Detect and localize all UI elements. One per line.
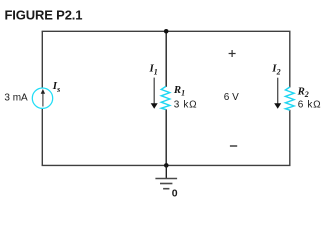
ground symbol bar 2 xyxy=(160,183,172,185)
current source Is (circle) xyxy=(32,88,52,108)
svg-text:0: 0 xyxy=(172,187,178,199)
svg-text:I2: I2 xyxy=(271,62,280,76)
svg-text:6 kΩ: 6 kΩ xyxy=(298,100,321,111)
resistor R1 (cyan zigzag) xyxy=(161,86,170,109)
ground stub wire xyxy=(165,165,167,178)
junction node dot (top, middle branch) xyxy=(164,29,169,34)
junction node dot (bottom, ground node) xyxy=(164,163,169,168)
svg-text:R2: R2 xyxy=(297,85,309,99)
svg-text:3 mA: 3 mA xyxy=(4,93,28,104)
wire middle upper (top node to R1) xyxy=(165,31,167,87)
ground symbol bar 1 xyxy=(155,178,177,180)
current arrow I2 xyxy=(274,78,281,109)
current source arrow (pointing up) xyxy=(41,89,45,107)
wire bottom (ground node) xyxy=(42,164,291,166)
current arrow I1 xyxy=(151,78,158,109)
resistor R2 (cyan zigzag) xyxy=(285,87,294,110)
svg-text:FIGURE P2.1: FIGURE P2.1 xyxy=(5,8,83,23)
ground symbol bar 3 xyxy=(163,188,169,190)
svg-text:3 kΩ: 3 kΩ xyxy=(174,99,198,110)
wire top (node between Is, R1, 6V, R2) xyxy=(42,30,291,32)
wire middle lower (R1 to bottom node) xyxy=(165,109,167,165)
plus sign (6V polarity) xyxy=(229,50,236,57)
svg-text:I1: I1 xyxy=(149,62,158,76)
wire right upper (top node to R2) xyxy=(289,31,291,87)
svg-text:Is: Is xyxy=(52,80,60,94)
svg-text:6 V: 6 V xyxy=(224,92,239,103)
wire left upper (top node to current source) xyxy=(41,31,43,89)
wire left lower (current source to bottom node) xyxy=(41,108,43,165)
wire right lower (R2 to bottom node) xyxy=(289,110,291,166)
svg-text:R1: R1 xyxy=(173,84,185,98)
minus sign (6V polarity) xyxy=(230,145,237,147)
